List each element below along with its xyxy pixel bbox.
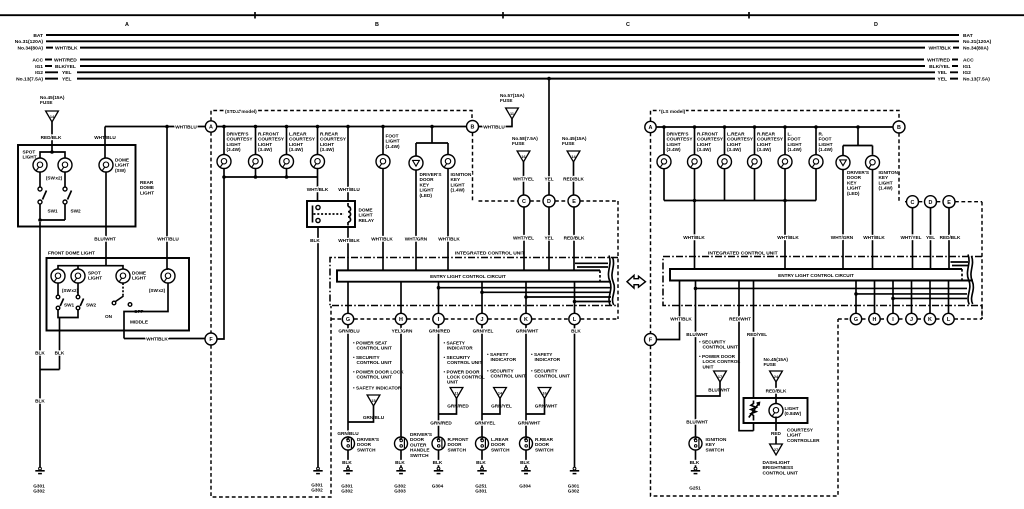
svg-text:C: C <box>522 199 526 205</box>
svg-text:BLU/WHT: BLU/WHT <box>686 332 708 337</box>
lamp l.rear courtesy light <box>286 127 288 155</box>
relay dome light relay box <box>307 201 355 227</box>
svg-text:(3.4W): (3.4W) <box>258 147 273 152</box>
svg-text:K: K <box>524 317 528 323</box>
connector E <box>568 195 580 207</box>
switch SW2 front <box>77 283 79 295</box>
svg-text:C: C <box>626 22 630 28</box>
svg-text:D: D <box>929 200 933 206</box>
svg-text:CONTROL UNIT: CONTROL UNIT <box>763 470 798 475</box>
svg-text:WHT/GRN: WHT/GRN <box>831 235 854 240</box>
svg-text:WHT/RED: WHT/RED <box>927 57 950 63</box>
svg-text:WHT/YEL: WHT/YEL <box>513 177 534 182</box>
top border rule <box>0 14 1024 16</box>
wire BLK entry to L with bend <box>575 282 612 313</box>
svg-text:(SW): (SW) <box>115 168 126 173</box>
entry box torn edge right <box>961 269 963 281</box>
svg-text:BAT: BAT <box>963 33 973 39</box>
svg-text:RED/BLK: RED/BLK <box>940 235 961 240</box>
svg-text:CONTROL UNIT: CONTROL UNIT <box>491 374 526 379</box>
wire triangle 14 branch <box>482 399 500 415</box>
svg-text:G304: G304 <box>519 484 531 489</box>
bus No.31(120A) wire <box>46 40 959 42</box>
wire RED/BLK fuse to controller lamp <box>775 382 777 405</box>
svg-text:(1.4W): (1.4W) <box>879 186 894 191</box>
section tick 1 <box>254 12 256 19</box>
integrated control unit box right <box>663 257 982 306</box>
svg-text:BLK: BLK <box>395 460 405 465</box>
svg-text:WHT/BLK: WHT/BLK <box>371 237 393 242</box>
wire WHT/YEL fuse58 to C <box>523 162 525 195</box>
svg-text:BLK: BLK <box>433 460 443 465</box>
torn lines above entry box right <box>951 262 969 266</box>
LS dashed boundary bottom <box>651 319 851 496</box>
dashed links G to L <box>331 318 618 320</box>
svg-text:BLK: BLK <box>571 329 581 334</box>
fuse No.57(15A) symbol <box>506 108 519 119</box>
wire RED/BLK E to ICU right <box>948 208 950 269</box>
svg-text:WHT/BLU: WHT/BLU <box>483 125 505 130</box>
wire GRN/WHT K column <box>525 325 527 437</box>
svg-text:WHT/BLK: WHT/BLK <box>55 45 78 51</box>
svg-text:(3.4W): (3.4W) <box>289 147 304 152</box>
lamp r.foot light <box>815 127 817 155</box>
wire BLK H to ground <box>400 450 402 468</box>
svg-text:FUSE: FUSE <box>512 141 525 146</box>
svg-text:CONTROL UNIT: CONTROL UNIT <box>447 360 482 365</box>
wire front switches common to BLK <box>58 310 78 370</box>
svg-text:WHT/BLK: WHT/BLK <box>438 237 460 242</box>
ground G301 G302 L <box>570 467 579 473</box>
connector F right <box>645 334 657 346</box>
lamp controller light <box>769 404 783 418</box>
svg-text:IG1: IG1 <box>963 64 971 70</box>
svg-text:(3.4W): (3.4W) <box>757 147 772 152</box>
svg-text:No.31(120A): No.31(120A) <box>963 39 992 45</box>
svg-text:B: B <box>375 22 379 28</box>
svg-text:G304: G304 <box>432 484 444 489</box>
svg-text:16: 16 <box>542 392 546 396</box>
bus No.13(7.5A) YEL wire <box>45 78 958 80</box>
STD.L dashed boundary left <box>210 132 212 333</box>
svg-text:FUSE: FUSE <box>500 98 513 103</box>
lamp ignition key light <box>441 155 455 169</box>
svg-text:YEL: YEL <box>544 177 553 182</box>
wire WHT/BLU bus to relay coil <box>347 127 349 202</box>
wire rear spot return BLK <box>39 222 41 370</box>
integrated control unit box left <box>330 258 618 306</box>
svg-text:(LED): (LED) <box>420 193 433 198</box>
svg-text:BLK: BLK <box>476 460 486 465</box>
wire entry to I right with bend <box>893 281 967 314</box>
wire spot switches common <box>40 204 65 220</box>
svg-text:WHT/BLK: WHT/BLK <box>777 235 799 240</box>
svg-text:BLK/YEL: BLK/YEL <box>929 64 950 70</box>
svg-text:WHT/BLU: WHT/BLU <box>338 187 360 192</box>
svg-text:WHT/BLK: WHT/BLK <box>307 187 329 192</box>
connector triangle 16 GRN/WHT <box>538 388 551 399</box>
lamp l.rear courtesy light right <box>724 127 726 155</box>
wire RED/WHT entry to controller <box>739 281 754 431</box>
svg-text:WHT/GRN: WHT/GRN <box>405 237 428 242</box>
connector F <box>205 333 217 345</box>
svg-text:BLK: BLK <box>690 460 700 465</box>
wire GRN/BLU entry to G <box>347 282 349 313</box>
connector C <box>518 195 530 207</box>
svg-text:27: 27 <box>774 448 778 452</box>
svg-text:G: G <box>346 317 350 323</box>
svg-text:G: G <box>854 317 858 323</box>
svg-text:YEL/GRN: YEL/GRN <box>392 329 413 334</box>
lamp foot light <box>382 127 384 155</box>
wire GRN/YEL J column <box>481 325 483 437</box>
wire WHT/BLU bus to rear dome lamp <box>104 127 106 159</box>
entry light control circuit box right <box>670 269 973 281</box>
svg-text:(1.4W): (1.4W) <box>788 147 803 152</box>
connector triangle 15 GRN/BLU <box>367 395 380 406</box>
wire triangle 17 branch <box>696 382 721 396</box>
svg-text:GRN/YEL: GRN/YEL <box>491 404 512 409</box>
fuse No.45(15A) symbol left <box>46 111 59 122</box>
svg-text:UNIT: UNIT <box>447 380 458 385</box>
switch SW2 rear <box>64 172 66 187</box>
svg-text:RED/WHT: RED/WHT <box>729 317 751 322</box>
svg-text:A: A <box>125 22 129 28</box>
led driver's door key light <box>409 156 423 170</box>
bus BAT wire <box>46 34 959 36</box>
lamp r.rear courtesy light right <box>754 127 756 155</box>
entry box torn edge left <box>599 270 601 281</box>
svg-text:D: D <box>547 199 551 205</box>
svg-text:BLK: BLK <box>55 351 65 356</box>
switch SW1 front <box>57 283 59 295</box>
svg-text:C: C <box>911 200 915 206</box>
svg-text:UNIT: UNIT <box>703 364 714 369</box>
svg-text:(3.4W): (3.4W) <box>697 147 712 152</box>
bus ACC WHT/RED wire <box>45 59 958 61</box>
switch SW1 rear <box>39 172 41 187</box>
svg-text:GRN/WHT: GRN/WHT <box>516 329 539 334</box>
wire BLK L column <box>574 325 576 468</box>
svg-text:(1.4W): (1.4W) <box>451 188 466 193</box>
svg-text:G303: G303 <box>394 489 406 494</box>
wire key lights branch right <box>843 127 873 156</box>
connector triangle 14 GRN/YEL <box>494 388 507 399</box>
svg-text:CONTROL UNIT: CONTROL UNIT <box>357 360 392 365</box>
wire front feed bus <box>58 266 123 270</box>
svg-text:G302: G302 <box>33 489 45 494</box>
svg-text:SWITCH: SWITCH <box>448 447 467 452</box>
svg-text:G302: G302 <box>341 489 353 494</box>
svg-text:17: 17 <box>718 375 722 379</box>
switch front selector ON/OFF/MIDDLE <box>122 283 124 296</box>
wire WHT/BLK dome switch to F <box>124 338 205 340</box>
section tick 3 <box>748 12 750 19</box>
wire GRN/WHT entry to K with bend <box>526 282 611 313</box>
svg-text:GRN/WHT: GRN/WHT <box>518 421 541 426</box>
svg-text:D: D <box>874 22 878 28</box>
svg-text:BLU/WHT: BLU/WHT <box>686 420 708 425</box>
junction spot common <box>38 218 42 222</box>
svg-text:GRN/BLU: GRN/BLU <box>338 329 360 334</box>
wire BLU/WHT entry to key switch <box>696 281 968 437</box>
svg-text:No.31(120A): No.31(120A) <box>15 39 44 45</box>
svg-text:INDICATOR: INDICATOR <box>447 346 473 351</box>
svg-text:CONTROLLER: CONTROLLER <box>787 438 820 443</box>
ground G304 r.rear <box>521 467 530 473</box>
connector B <box>467 121 479 133</box>
STD.L model dashed boundary top <box>211 111 472 122</box>
svg-text:(3.4W): (3.4W) <box>667 147 682 152</box>
svg-text:No.13(7.5A): No.13(7.5A) <box>963 76 990 82</box>
wire triangle 15 branch <box>348 406 374 422</box>
svg-text:ON: ON <box>105 314 113 319</box>
connector L <box>569 313 580 324</box>
courtesy light controller box <box>744 398 808 423</box>
wire BLK J to ground <box>481 450 483 468</box>
lamp front spot 2 <box>71 269 85 283</box>
svg-text:G302: G302 <box>568 489 580 494</box>
wire ignition key light to ICU WHT/BLK <box>447 169 449 271</box>
svg-text:(1.4W): (1.4W) <box>386 144 401 149</box>
svg-text:WHT/BLK: WHT/BLK <box>146 337 168 342</box>
wire WHT/BLK return to ICU 2 <box>784 201 786 270</box>
STD.L dashed B to C D E <box>473 133 619 320</box>
wire RED/YEL entry to controller <box>753 281 755 431</box>
svg-text:SWITCH: SWITCH <box>535 447 554 452</box>
lamp driver's courtesy light right <box>663 127 665 155</box>
svg-text:No.34(80A): No.34(80A) <box>963 45 989 51</box>
ground G302 G303 handle switch <box>396 467 405 473</box>
svg-text:SW1: SW1 <box>64 303 75 308</box>
connector triangle 17 BLU/WHT <box>714 371 727 382</box>
svg-text:(1.4W): (1.4W) <box>819 147 834 152</box>
wire BLK I to ground <box>438 450 440 468</box>
fuse No.45(15A) mid symbol <box>567 151 580 162</box>
svg-text:15: 15 <box>371 399 375 403</box>
connector K <box>520 313 531 324</box>
svg-text:INDICATOR: INDICATOR <box>535 357 561 362</box>
bus IG2 YEL wire <box>45 71 958 73</box>
connector H right <box>869 313 880 324</box>
svg-text:WHT/BLK: WHT/BLK <box>683 235 705 240</box>
wire WHT/BLK entry to F right <box>657 281 680 340</box>
svg-text:WHT/BLK: WHT/BLK <box>863 235 885 240</box>
svg-text:B: B <box>471 125 475 131</box>
lamp front spot 1 <box>51 269 65 283</box>
wire BLK join to ground <box>40 370 60 468</box>
svg-text:BLK: BLK <box>35 399 45 404</box>
connector G <box>342 313 353 324</box>
svg-text:BLU/WHT: BLU/WHT <box>94 237 116 242</box>
svg-text:BLK/YEL: BLK/YEL <box>55 64 76 70</box>
wire RED/BLK fuse to rear dome box <box>51 122 53 152</box>
svg-text:WHT/RED: WHT/RED <box>54 57 77 63</box>
lamp spot 1 rear <box>33 158 47 172</box>
connector D right <box>925 196 937 208</box>
svg-text:LIGHT: LIGHT <box>140 190 154 195</box>
svg-text:FUSE: FUSE <box>40 100 53 105</box>
torn lines above entry box left <box>575 263 608 267</box>
svg-text:H: H <box>399 317 403 323</box>
svg-text:ACC: ACC <box>32 57 43 63</box>
svg-text:RELAY: RELAY <box>359 218 375 223</box>
svg-text:YEL: YEL <box>937 76 947 82</box>
bus IG1 BLK/YEL wire <box>45 65 958 67</box>
svg-text:IG2: IG2 <box>963 70 971 76</box>
svg-text:RED/BLK: RED/BLK <box>41 135 62 140</box>
lamp r.front courtesy light right <box>694 127 696 155</box>
lamp driver's courtesy light <box>223 127 225 155</box>
wire entry to K right <box>929 281 931 314</box>
wire WHT/YEL C to ICU <box>523 207 525 270</box>
wire courtesy return to F <box>217 177 224 339</box>
svg-text:CONTROL UNIT: CONTROL UNIT <box>703 345 738 350</box>
wire led to ICU WHT/GRN <box>415 170 417 270</box>
svg-text:B: B <box>897 125 901 131</box>
svg-text:YEL: YEL <box>544 236 553 241</box>
wire foot light to ICU WHT/BLK <box>382 169 384 271</box>
svg-text:A: A <box>649 125 653 131</box>
dashed links G to L right <box>862 306 982 320</box>
junction WHT/BLU <box>165 125 169 129</box>
svg-text:G302: G302 <box>311 488 323 493</box>
svg-text:GRN/RED: GRN/RED <box>430 421 452 426</box>
connector G right <box>850 313 861 324</box>
svg-text:11: 11 <box>454 392 458 396</box>
svg-text:(SW x2): (SW x2) <box>46 176 63 181</box>
connector D <box>543 195 555 207</box>
connector A right <box>645 121 656 132</box>
svg-text:WHT/BLK: WHT/BLK <box>670 317 692 322</box>
svg-text:FUSE: FUSE <box>764 362 777 367</box>
svg-text:IG2: IG2 <box>35 70 43 76</box>
connector C right <box>907 196 919 208</box>
svg-text:ENTRY LIGHT CONTROL CIRCUIT: ENTRY LIGHT CONTROL CIRCUIT <box>430 274 506 279</box>
svg-text:WHT/BLK: WHT/BLK <box>338 238 360 243</box>
wire BLK relay to ground <box>317 227 319 468</box>
svg-text:RED/BLK: RED/BLK <box>563 177 584 182</box>
svg-text:BLK: BLK <box>310 238 320 243</box>
relay contact <box>316 205 320 209</box>
connector triangle 11 GRN/RED <box>450 388 463 399</box>
svg-text:A: A <box>209 125 213 131</box>
svg-text:H: H <box>873 317 877 323</box>
lamp rear dome light <box>99 158 113 172</box>
lamp front spot 3 <box>161 269 175 283</box>
switch l.rear door switch <box>476 437 489 450</box>
bus No.34(80A) WHT/BLK wire <box>46 47 959 49</box>
lamp r.rear courtesy light <box>317 127 319 155</box>
LS model dashed boundary top <box>651 111 900 122</box>
wire WHT/BLK relay to ICU <box>347 227 349 270</box>
wire entry to L right <box>948 281 950 314</box>
LS dashed B to C D E right <box>899 133 982 319</box>
ground G301 G302 driver's door <box>343 467 352 473</box>
wire spot light feed split <box>40 152 65 159</box>
wire RED lamp to triangle 27 <box>775 417 777 445</box>
lamp r.front courtesy light <box>255 127 257 155</box>
wire courtesy return bus right <box>664 169 816 201</box>
svg-text:INTEGRATED CONTROL UNIT: INTEGRATED CONTROL UNIT <box>708 251 778 257</box>
wire RED/BLK fuse45 to E <box>573 162 575 195</box>
svg-text:FRONT DOME LIGHT: FRONT DOME LIGHT <box>48 251 95 256</box>
svg-text:BLK: BLK <box>342 460 352 465</box>
svg-text:(SW x2): (SW x2) <box>62 288 79 293</box>
wire YEL D to ICU <box>548 207 550 270</box>
svg-text:ENTRY LIGHT CONTROL CIRCUIT: ENTRY LIGHT CONTROL CIRCUIT <box>778 273 854 278</box>
wire WHT/BLK r.rear to relay <box>317 177 319 201</box>
wire WHT/BLU junction drop to front box <box>166 127 168 270</box>
svg-text:J: J <box>481 317 484 323</box>
svg-text:CONTROL UNIT: CONTROL UNIT <box>357 375 392 380</box>
svg-text:GRN/YEL: GRN/YEL <box>475 421 496 426</box>
svg-text:CONTROL UNIT: CONTROL UNIT <box>535 374 570 379</box>
svg-text:YEL: YEL <box>62 70 72 76</box>
svg-text:SW2: SW2 <box>86 303 97 308</box>
svg-text:RED/BLK: RED/BLK <box>564 236 585 241</box>
svg-text:RED/BLK: RED/BLK <box>766 389 787 394</box>
svg-text:MIDDLE: MIDDLE <box>130 320 148 325</box>
wire BLK key switch to ground <box>695 450 697 468</box>
svg-text:GRN/WHT: GRN/WHT <box>535 404 558 409</box>
switch driver's door switch <box>342 437 355 450</box>
svg-text:YEL: YEL <box>937 70 947 76</box>
connector J <box>476 313 487 324</box>
svg-text:LIGHT: LIGHT <box>88 276 102 281</box>
wire courtesy return bus <box>224 169 318 178</box>
wire GRN/BLU G column <box>347 325 349 437</box>
wire front spot3 to selector <box>124 283 168 339</box>
wire WHT/BLK ignition light to ICU right <box>872 170 874 270</box>
svg-text:J: J <box>910 317 913 323</box>
connector I <box>433 313 444 324</box>
ground G301 G302 dome <box>35 467 44 473</box>
svg-text:SW2: SW2 <box>71 209 82 214</box>
section tick 2 <box>502 12 504 19</box>
svg-text:ACC: ACC <box>963 57 974 63</box>
svg-text:BLK: BLK <box>35 351 45 356</box>
wire entry to H right <box>874 281 876 314</box>
svg-text:SWITCH: SWITCH <box>410 453 429 458</box>
svg-text:GRN/RED: GRN/RED <box>447 404 469 409</box>
wire YEL D to ICU right <box>930 208 932 269</box>
svg-text:• SAFETY INDICATOR: • SAFETY INDICATOR <box>353 386 402 391</box>
svg-text:WHT/YEL: WHT/YEL <box>900 235 921 240</box>
wire YEL/GRN H column <box>400 325 402 437</box>
junction spot feed <box>50 150 54 154</box>
ground G304 r.front <box>434 467 443 473</box>
lamp spot 2 rear <box>58 158 72 172</box>
wire A to B bus WHT/BLU <box>217 126 467 128</box>
wire entry to J right <box>911 281 913 314</box>
connector L right <box>943 313 954 324</box>
wire WHT/GRN led to ICU right <box>842 170 844 270</box>
wire WHT/BLU main bus to A <box>105 126 206 128</box>
wire RED/BLK E to ICU <box>573 207 575 270</box>
connector I right <box>887 313 898 324</box>
svg-text:LIGHT: LIGHT <box>132 276 146 281</box>
svg-text:(0.84W): (0.84W) <box>785 411 802 416</box>
wire triangle 11 branch <box>439 399 457 415</box>
wire BLK G to ground <box>347 450 349 468</box>
connector triangle 27 <box>770 444 783 455</box>
front dome light box <box>47 258 190 331</box>
svg-text:IG1: IG1 <box>35 64 43 70</box>
svg-text:WHT/BLU: WHT/BLU <box>175 125 197 130</box>
connector H <box>395 313 406 324</box>
wire GRN/RED I column <box>438 325 440 437</box>
